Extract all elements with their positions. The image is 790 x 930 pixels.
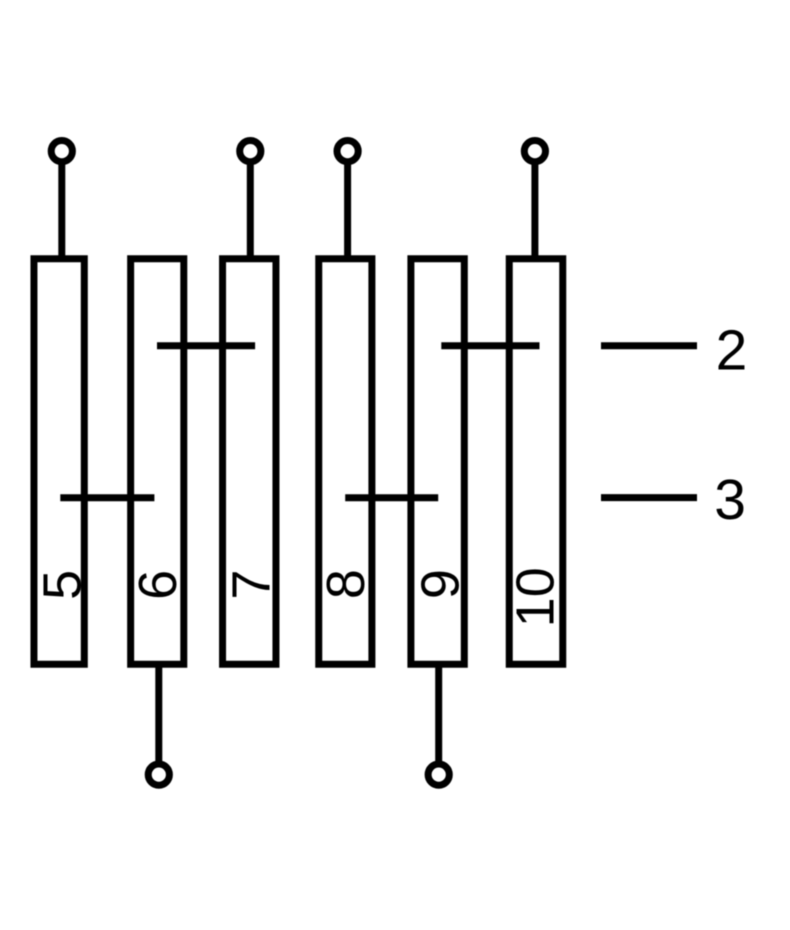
position 2 reference line	[601, 342, 697, 349]
contact bar 10	[509, 259, 563, 665]
terminal 8 circle	[337, 141, 358, 162]
terminal 5 circle	[51, 141, 72, 162]
contact link bars 8-9 position 3	[345, 494, 438, 501]
contact bar 7	[223, 259, 276, 665]
terminal 8 lead wire	[344, 161, 351, 259]
svg-text:8: 8	[316, 569, 376, 599]
terminal 10 circle	[524, 141, 545, 162]
svg-text:2: 2	[716, 319, 748, 383]
contact link bars 9-10 position 2	[441, 342, 539, 349]
terminal 7 circle	[240, 141, 261, 162]
contact bar 5	[34, 259, 84, 665]
contact bar 8	[319, 259, 372, 665]
terminal 6 lead wire	[155, 664, 162, 764]
svg-text:10: 10	[506, 567, 566, 627]
svg-text:9: 9	[411, 569, 471, 599]
svg-text:6: 6	[128, 570, 188, 600]
svg-text:7: 7	[221, 570, 281, 600]
contact bar 6	[131, 259, 184, 665]
svg-text:5: 5	[33, 570, 93, 600]
position 3 reference line	[601, 494, 697, 501]
terminal 5 lead wire	[58, 161, 65, 259]
terminal 9 lead wire	[435, 664, 442, 764]
terminal 7 lead wire	[247, 161, 254, 259]
terminal 10 lead wire	[531, 161, 538, 259]
contact bar 9	[411, 259, 464, 665]
terminal 9 circle	[428, 764, 449, 785]
contact link bars 5-6 position 3	[60, 494, 154, 501]
terminal 6 circle	[148, 764, 169, 785]
svg-text:3: 3	[714, 468, 746, 532]
contact link bars 6-7 position 2	[157, 342, 255, 349]
